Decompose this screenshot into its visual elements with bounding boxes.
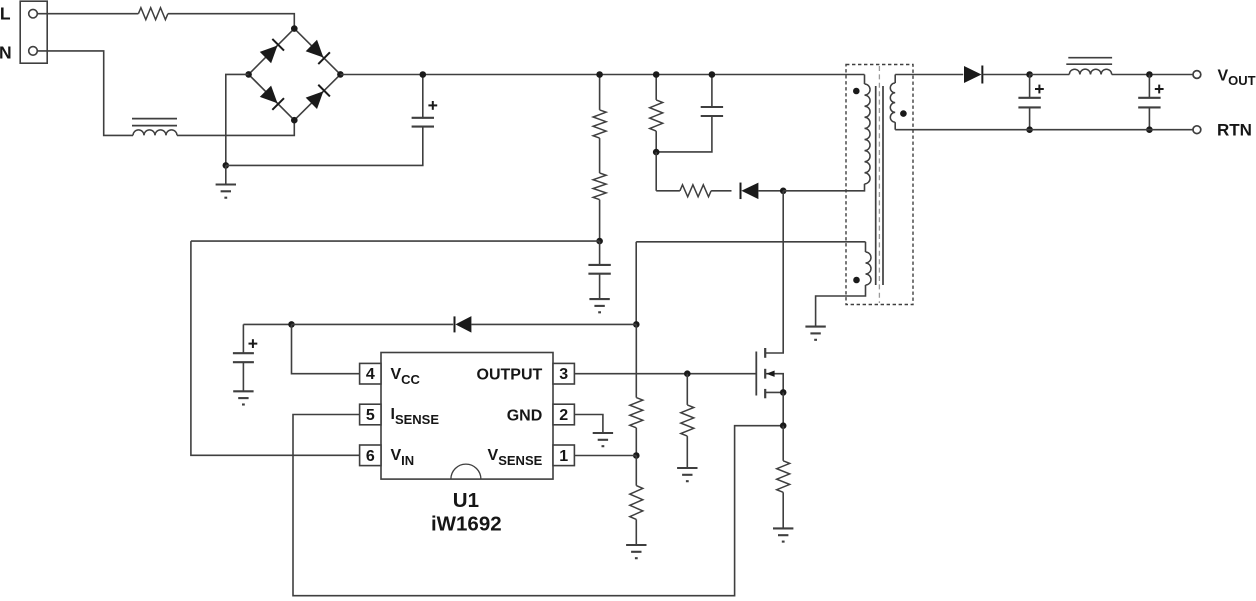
bridge node left	[245, 71, 252, 78]
ground VCC cap	[233, 390, 253, 392]
MOSFET Q1 gate bar	[755, 352, 757, 396]
snubber capacitor C3	[711, 75, 713, 108]
wire VCC cap to diode	[243, 323, 291, 325]
pin box 5	[360, 404, 381, 425]
svg-text:U1: U1	[453, 489, 479, 512]
svg-text:L: L	[0, 3, 11, 23]
pin box 3	[553, 363, 574, 384]
wire inductor to C6	[1112, 74, 1194, 76]
svg-text:1: 1	[559, 448, 568, 465]
junction output cap C6 bottom	[1146, 126, 1153, 133]
output filter inductor L2 core bars	[1068, 57, 1112, 59]
output rectifier diode D3	[964, 66, 982, 83]
wire ground node to bulk cap	[226, 127, 423, 166]
wire fuse to bridge top	[168, 14, 294, 29]
pin box 6	[360, 445, 381, 466]
bridge node top	[291, 25, 298, 32]
svg-text:OUTPUT: OUTPUT	[477, 366, 543, 383]
secondary return wire	[895, 129, 1193, 131]
junction output cap C6 top	[1146, 71, 1153, 78]
svg-text:3: 3	[559, 366, 568, 383]
U1 chip body	[381, 353, 553, 480]
junction snubber node	[653, 149, 660, 156]
snubber resistor R3	[655, 75, 657, 100]
wire C5 to filter inductor	[1030, 74, 1070, 76]
wire choke to bridge bottom	[177, 120, 294, 135]
svg-text:5: 5	[366, 407, 375, 424]
bridge node bottom	[291, 117, 298, 124]
sense divider resistor R6	[635, 456, 637, 486]
bridge rectifier BR1 edge bottom-right with diode	[294, 74, 340, 120]
output filter inductor L2 winding	[1069, 69, 1111, 74]
plus sign C4	[249, 343, 258, 345]
junction rail at C1	[420, 71, 427, 78]
junction output cap C5 bottom	[1026, 126, 1033, 133]
EMI filter choke L1 winding	[133, 130, 177, 136]
svg-text:6: 6	[366, 448, 375, 465]
pin box 2	[553, 404, 574, 425]
plus sign C5	[1035, 88, 1044, 90]
ground gate pulldown	[677, 467, 697, 469]
bulk capacitor C1	[422, 75, 424, 119]
RTN terminal	[1193, 126, 1201, 134]
plus sign C1	[428, 104, 437, 106]
bridge rectifier BR1 edge top-right with diode	[294, 29, 340, 75]
junction VSENSE node	[633, 452, 640, 459]
primary ground symbol	[225, 165, 227, 184]
junction current sense node	[780, 422, 787, 429]
transformer auxiliary winding	[865, 242, 867, 252]
wire source down	[782, 392, 784, 425]
bridge rectifier BR1 edge left-bottom with diode	[249, 74, 295, 120]
wire L terminal to fuse	[37, 13, 138, 15]
plus sign C6	[1155, 88, 1164, 90]
junction primary ground node	[223, 162, 230, 169]
MOSFET Q1 source wire	[765, 391, 783, 393]
wire snubber node down	[655, 152, 657, 191]
wire pin 3 OUTPUT to gate	[574, 373, 756, 375]
svg-text:N: N	[0, 43, 12, 63]
transformer primary winding	[864, 75, 866, 85]
VCC rectifier diode D2	[292, 323, 454, 325]
junction VCC node	[288, 321, 295, 328]
junction rail at R3	[653, 71, 660, 78]
wire R2 to VIN node	[599, 200, 601, 242]
wire VCC node to pin 4	[292, 324, 360, 373]
transformer core line left	[875, 86, 877, 285]
startup resistor R2	[593, 173, 606, 200]
transformer core line right	[882, 86, 884, 285]
VOUT terminal	[1193, 71, 1201, 79]
bridge node right	[337, 71, 344, 78]
output capacitor C6	[1148, 75, 1150, 98]
transformer T1 dashed outline	[846, 65, 913, 305]
junction VIN node	[596, 238, 603, 245]
wire VCC node down across OUTPUT to R5	[635, 324, 637, 397]
secondary output wire	[895, 74, 963, 76]
junction VCC diode node	[633, 321, 640, 328]
wire pin 1 VSENSE	[574, 455, 636, 457]
gate pulldown resistor R7	[686, 374, 688, 405]
snubber series resistor R4	[656, 190, 680, 192]
wire pin 2 GND	[574, 415, 603, 434]
startup resistor R1	[599, 75, 601, 110]
ground pin 2	[593, 432, 613, 434]
pin box 1	[553, 445, 574, 466]
junction OUTPUT at pulldown	[684, 370, 691, 377]
wire between R1 and R2	[599, 138, 601, 173]
aux polarity dot	[853, 277, 860, 284]
U1 pin-1 notch	[451, 464, 481, 479]
svg-text:2: 2	[559, 407, 568, 424]
junction rail at C3	[709, 71, 716, 78]
svg-text:4: 4	[366, 366, 375, 383]
bridge rectifier BR1 edge left-top with diode	[249, 29, 295, 75]
wire aux node down to VCC diode node	[635, 242, 637, 325]
output capacitor C5	[1029, 75, 1031, 98]
VIN filter capacitor C2	[599, 241, 601, 265]
pin box 4	[360, 363, 381, 384]
ground aux winding	[805, 326, 825, 328]
secondary polarity dot	[900, 110, 907, 117]
snubber diode D1	[711, 190, 731, 192]
junction output cap C5 top	[1026, 71, 1033, 78]
wire pin 5 ISENSE loop to current sense	[293, 415, 783, 596]
main HV rail	[340, 74, 864, 76]
svg-text:GND: GND	[507, 408, 543, 425]
ground divider	[626, 544, 646, 546]
MOSFET Q1 drain wire to transformer	[765, 191, 783, 353]
fuse F1 (zigzag)	[138, 8, 168, 20]
current sense resistor R8	[782, 426, 784, 461]
wire N terminal to choke	[37, 51, 133, 135]
MOSFET Q1 body connection with arrow	[765, 374, 783, 393]
ground VIN cap	[589, 298, 609, 300]
VCC capacitor C4	[242, 324, 244, 353]
junction rail at R1	[596, 71, 603, 78]
EMI filter choke L1 core bars	[132, 118, 177, 120]
wire aux winding to divider	[636, 241, 865, 243]
primary polarity dot	[853, 88, 860, 95]
transformer secondary winding	[894, 75, 896, 84]
svg-text:RTN: RTN	[1217, 121, 1252, 140]
transformer shield dashed line	[878, 66, 880, 303]
MOSFET Q1 channel segments	[764, 348, 766, 358]
wire VIN loop down to pin 6	[191, 241, 360, 455]
ground sense resistor	[773, 527, 793, 529]
junction source node	[780, 389, 787, 396]
sense divider resistor R5	[630, 398, 643, 428]
VIN wire to chip loop	[191, 240, 600, 242]
wire bridge minus to primary ground	[226, 74, 249, 165]
terminal block J1 (AC input)	[20, 1, 47, 63]
junction drain node at snubber	[780, 188, 787, 195]
svg-text:iW1692: iW1692	[431, 512, 502, 535]
